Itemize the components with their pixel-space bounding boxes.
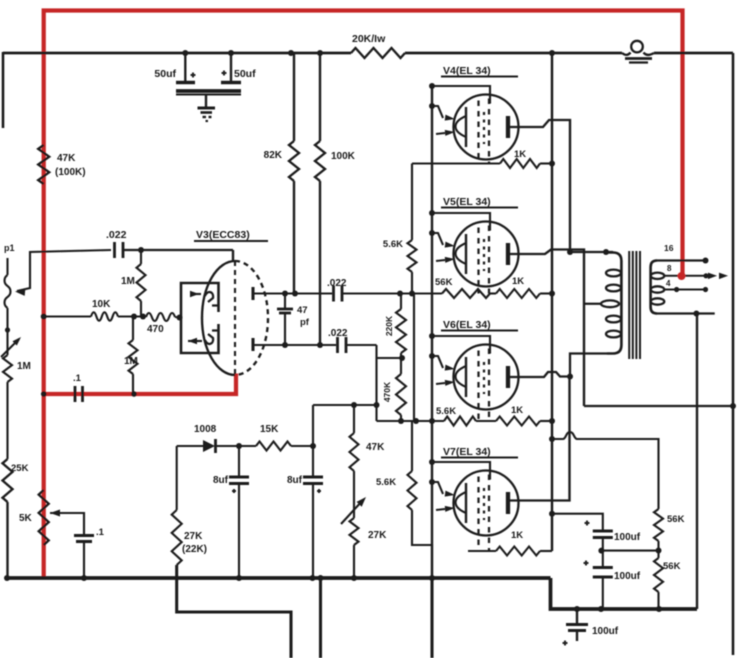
svg-text:V3(ECC83): V3(ECC83) xyxy=(196,229,250,241)
svg-text:10K: 10K xyxy=(92,299,111,310)
svg-text:470: 470 xyxy=(147,324,164,335)
svg-text:100uf: 100uf xyxy=(592,626,619,637)
svg-text:.022: .022 xyxy=(106,229,127,241)
svg-text:1K: 1K xyxy=(514,149,526,160)
svg-text:(100K): (100K) xyxy=(55,167,86,178)
svg-text:V6(EL 34): V6(EL 34) xyxy=(443,319,491,331)
svg-text:.1: .1 xyxy=(96,527,105,538)
svg-text:1M: 1M xyxy=(121,276,135,287)
svg-text:50uf: 50uf xyxy=(234,68,256,80)
svg-text:27K: 27K xyxy=(184,531,203,542)
svg-text:56K: 56K xyxy=(667,514,685,525)
svg-text:56K: 56K xyxy=(435,277,453,288)
svg-text:1M: 1M xyxy=(124,356,138,367)
svg-text:100uf: 100uf xyxy=(614,532,641,543)
svg-text:V7(EL 34): V7(EL 34) xyxy=(443,446,491,458)
svg-text:8: 8 xyxy=(667,264,672,273)
svg-text:.1: .1 xyxy=(73,373,82,384)
svg-text:1K: 1K xyxy=(511,405,523,416)
svg-text:50uf: 50uf xyxy=(154,68,176,80)
svg-text:1K: 1K xyxy=(512,276,524,287)
svg-text:4: 4 xyxy=(666,279,671,288)
svg-text:100K: 100K xyxy=(331,151,356,162)
svg-text:5.6K: 5.6K xyxy=(383,239,403,250)
svg-text:5.6K: 5.6K xyxy=(376,477,396,488)
svg-text:47K: 47K xyxy=(57,153,76,164)
svg-text:100uf: 100uf xyxy=(614,571,641,582)
svg-text:1K: 1K xyxy=(511,530,523,541)
svg-text:15K: 15K xyxy=(260,424,279,435)
svg-text:.022: .022 xyxy=(327,278,347,289)
svg-text:8uf: 8uf xyxy=(213,475,229,486)
svg-text:1M: 1M xyxy=(17,361,31,372)
svg-text:5K: 5K xyxy=(19,513,33,524)
svg-text:56K: 56K xyxy=(663,561,681,572)
svg-text:(22K): (22K) xyxy=(182,544,207,555)
svg-text:pf: pf xyxy=(300,317,310,328)
svg-text:.022: .022 xyxy=(328,328,348,339)
svg-text:20K/Iw: 20K/Iw xyxy=(352,33,386,45)
svg-text:16: 16 xyxy=(664,243,674,253)
svg-text:5.6K: 5.6K xyxy=(436,406,456,417)
svg-text:V4(EL 34): V4(EL 34) xyxy=(443,65,491,77)
svg-text:V5(EL 34): V5(EL 34) xyxy=(443,196,491,208)
svg-text:47K: 47K xyxy=(366,442,385,453)
svg-text:82K: 82K xyxy=(264,150,283,161)
svg-text:47: 47 xyxy=(297,305,308,316)
svg-text:8uf: 8uf xyxy=(287,475,303,486)
svg-text:p1: p1 xyxy=(4,243,15,253)
svg-text:1008: 1008 xyxy=(194,424,217,435)
svg-text:27K: 27K xyxy=(368,530,387,541)
svg-text:220K: 220K xyxy=(384,315,394,336)
svg-text:25K: 25K xyxy=(11,463,29,474)
svg-text:470K: 470K xyxy=(382,381,392,402)
